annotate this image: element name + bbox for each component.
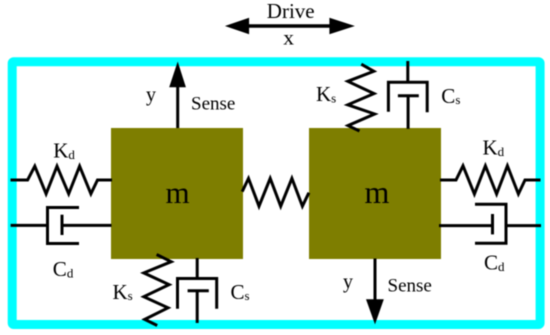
rod (top) — [406, 61, 409, 82]
svg-text:m: m — [165, 175, 189, 210]
spring (coupling, center) — [242, 178, 309, 206]
wire — [506, 224, 541, 227]
damper Cd (right) — [439, 204, 541, 243]
piston — [61, 215, 64, 235]
rod (from mass) — [196, 258, 199, 279]
svg-text:x: x — [283, 26, 294, 50]
rod (to mass) — [407, 96, 410, 129]
sense arrow (left, up) — [169, 62, 186, 129]
piston — [188, 289, 209, 292]
cylinder — [178, 279, 217, 309]
spring Ks (top) — [348, 64, 375, 131]
svg-text:Sense: Sense — [388, 276, 432, 297]
damper Cs (bottom) — [178, 258, 217, 323]
piston — [398, 94, 419, 97]
spring Kd (left) — [11, 166, 113, 194]
spring Kd (right) — [440, 166, 541, 194]
drive arrow (double-headed) — [225, 18, 355, 34]
cylinder — [388, 82, 427, 112]
spring Ks (bottom) — [144, 255, 171, 326]
mass m (left) — [111, 128, 243, 259]
rod (to frame) — [196, 291, 199, 323]
mass m (right) — [309, 128, 441, 259]
sense arrow (right, down) — [366, 259, 384, 325]
svg-text:y: y — [146, 84, 156, 106]
svg-text:y: y — [343, 271, 353, 293]
rod — [62, 224, 112, 227]
damper Cd (left) — [11, 208, 112, 244]
wire — [11, 224, 48, 227]
rod — [439, 224, 493, 227]
piston — [491, 214, 494, 234]
damper Cs (top) — [388, 61, 427, 129]
cylinder — [48, 208, 80, 244]
cylinder — [475, 204, 506, 243]
frame (cyan border) — [12, 62, 540, 325]
svg-text:Drive: Drive — [267, 0, 315, 23]
svg-text:m: m — [365, 174, 390, 210]
svg-text:Sense: Sense — [191, 94, 235, 115]
